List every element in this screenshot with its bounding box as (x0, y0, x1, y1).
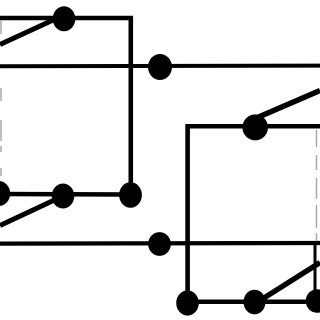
node: switch S1 pivot (53, 6, 76, 31)
wire: cell-2 top edge (186, 124, 320, 129)
switch S3 arm (upper-right) (254, 91, 320, 120)
node: switch S4 pivot (244, 290, 266, 315)
wire: cell-1 left edge (faint) (0, 20, 2, 176)
wire: cell-2 left edge (185, 124, 190, 303)
wire: upper horizontal bus (0, 64, 320, 69)
wire: cell-1 right edge (129, 16, 134, 195)
node: tap on lower bus (148, 232, 171, 256)
node: right terminal of cell-2 bottom rail (306, 289, 320, 313)
node: left terminal of cell-1 bottom rail (0, 181, 10, 206)
node: junction of cell-1 right edge and bottom rail (119, 182, 142, 208)
wire: lower horizontal bus (0, 241, 320, 246)
node: tap on upper bus (148, 54, 172, 80)
wire: cell-2 right edge (faint upper part) (316, 130, 318, 241)
wire: cell-2 right edge (solid lower part) (314, 243, 317, 301)
switch S4 arm (lower-right) (256, 263, 320, 304)
node: junction of cell-2 left edge and bottom rail (176, 290, 199, 315)
wire: cell-1 top edge (0, 16, 133, 21)
node: switch S2 pivot (52, 184, 75, 209)
switch S2 arm (lower-left) (0, 196, 63, 226)
wire: cell-2 bottom edge (186, 300, 320, 305)
switch S1 arm (upper-left) (0, 15, 64, 45)
node: switch S3 pivot (242, 114, 268, 140)
wire: cell-1 bottom edge (0, 192, 131, 197)
